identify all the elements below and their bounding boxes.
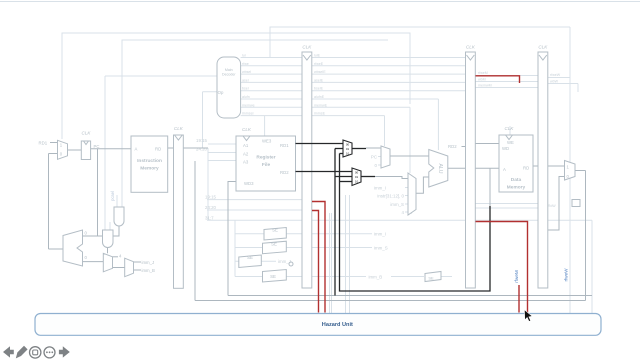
- svg-text:memwe: memwe: [242, 103, 255, 107]
- svg-text:A1: A1: [243, 143, 249, 148]
- svg-text:10: 10: [355, 179, 359, 183]
- svg-text:alufnE: alufnE: [314, 95, 325, 99]
- svg-text:instr[31:12], 0: instr[31:12], 0: [377, 193, 404, 198]
- svg-text:PC: PC: [371, 154, 377, 159]
- svg-text:bsel: bsel: [242, 87, 249, 91]
- svg-text:memwM: memwM: [478, 84, 492, 88]
- svg-text:Instruction: Instruction: [137, 158, 162, 164]
- svg-text:wbW: wbW: [550, 80, 559, 84]
- svg-text:CLK: CLK: [466, 45, 476, 50]
- svg-text:asel: asel: [242, 78, 249, 82]
- svg-text:rfweM: rfweM: [478, 71, 488, 75]
- svg-text:RD1: RD1: [39, 140, 48, 145]
- svg-text:CLK: CLK: [505, 126, 515, 131]
- svg-text:memwE: memwE: [314, 103, 328, 107]
- svg-text:immsel: immsel: [242, 112, 254, 116]
- svg-text:wbsel: wbsel: [242, 70, 251, 74]
- svg-text:rfweW: rfweW: [563, 268, 568, 282]
- svg-text:01: 01: [346, 147, 350, 151]
- svg-text:imm_B: imm_B: [369, 275, 383, 280]
- svg-text:rfweW: rfweW: [550, 73, 561, 77]
- svg-text:aselE: aselE: [314, 78, 324, 82]
- svg-text:rfweM: rfweM: [514, 270, 519, 283]
- svg-text:alufn: alufn: [242, 95, 250, 99]
- svg-text:Hazard Unit: Hazard Unit: [322, 322, 353, 328]
- svg-text:CLK: CLK: [538, 45, 548, 50]
- svg-text:SE: SE: [270, 274, 276, 279]
- svg-text:CLK: CLK: [82, 131, 92, 136]
- svg-text:ALU: ALU: [437, 163, 443, 173]
- svg-text:24:20: 24:20: [196, 147, 208, 152]
- svg-text:rfweE: rfweE: [314, 62, 324, 66]
- svg-text:imm_J: imm_J: [142, 260, 155, 265]
- svg-text:A: A: [503, 167, 506, 172]
- svg-text:pcsel: pcsel: [110, 191, 115, 201]
- svg-text:PC: PC: [94, 144, 100, 149]
- svg-text:WE: WE: [507, 140, 514, 145]
- svg-text:19:15: 19:15: [205, 195, 217, 200]
- svg-text:File: File: [262, 162, 271, 168]
- svg-text:CLK: CLK: [302, 45, 312, 50]
- svg-text:imm_I: imm_I: [374, 232, 386, 237]
- svg-text:CLK: CLK: [242, 127, 252, 132]
- svg-text:SE: SE: [428, 276, 434, 281]
- svg-text:RD: RD: [523, 166, 529, 171]
- svg-text:00: 00: [355, 170, 359, 174]
- svg-text:bselE: bselE: [314, 87, 324, 91]
- svg-text:RdW: RdW: [548, 204, 556, 208]
- svg-text:RD: RD: [155, 147, 161, 152]
- svg-text:CLK: CLK: [174, 126, 184, 131]
- svg-text:imm_I: imm_I: [374, 185, 386, 190]
- svg-text:rfwe: rfwe: [242, 62, 249, 66]
- svg-text:wbselE: wbselE: [314, 70, 326, 74]
- svg-text:WD: WD: [502, 146, 509, 151]
- svg-text:Op: Op: [218, 90, 224, 95]
- svg-text:imm_B: imm_B: [142, 268, 156, 273]
- svg-text:A2: A2: [243, 152, 249, 157]
- svg-text:SE: SE: [247, 255, 253, 260]
- svg-text:00: 00: [346, 142, 350, 146]
- svg-text:Decoder: Decoder: [222, 73, 236, 77]
- svg-text:A: A: [135, 147, 138, 152]
- svg-text:imm_S: imm_S: [374, 245, 388, 250]
- svg-text:immsE: immsE: [314, 112, 326, 116]
- svg-text:RD2: RD2: [280, 170, 289, 175]
- svg-text:RD2: RD2: [448, 144, 457, 149]
- svg-text:lui: lui: [242, 54, 246, 58]
- svg-text:31:7: 31:7: [205, 215, 214, 220]
- svg-text:SE: SE: [271, 241, 277, 246]
- svg-text:imm_S: imm_S: [390, 202, 404, 207]
- svg-text:WE3: WE3: [262, 139, 272, 144]
- svg-text:Memory: Memory: [507, 185, 526, 191]
- svg-text:RD1: RD1: [280, 143, 289, 148]
- svg-text:Memory: Memory: [140, 166, 159, 172]
- svg-text:10: 10: [346, 151, 350, 155]
- svg-text:WD3: WD3: [244, 181, 254, 186]
- svg-text:wbM: wbM: [478, 78, 486, 82]
- svg-text:01: 01: [355, 175, 359, 179]
- svg-text:Data: Data: [511, 177, 522, 183]
- svg-text:luiE: luiE: [314, 54, 321, 58]
- svg-text:24:20: 24:20: [205, 205, 217, 210]
- svg-text:A3: A3: [243, 160, 249, 165]
- svg-text:Register: Register: [256, 155, 275, 161]
- svg-text:19:15: 19:15: [196, 138, 208, 143]
- svg-text:SE: SE: [272, 228, 278, 233]
- svg-text:Main: Main: [225, 68, 233, 72]
